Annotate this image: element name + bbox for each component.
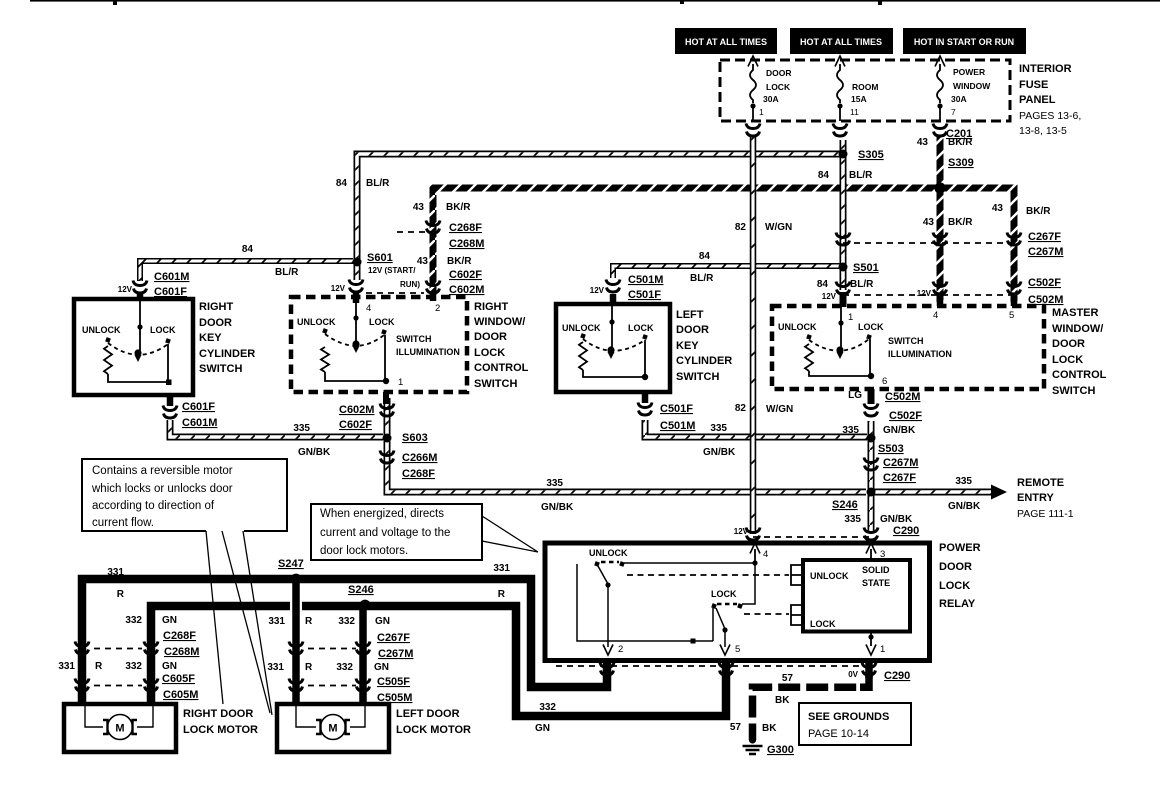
right key switch bottom bus	[108, 344, 169, 382]
svg-text:332: 332	[125, 615, 142, 626]
connector C201 fuse 3 output	[933, 124, 947, 137]
svg-text:BK/R: BK/R	[447, 256, 472, 267]
svg-text:C267M: C267M	[378, 648, 413, 660]
svg-text:C290: C290	[893, 525, 919, 537]
svg-text:RUN): RUN)	[400, 280, 420, 289]
svg-text:RIGHT DOOR: RIGHT DOOR	[183, 708, 253, 720]
power door lock relay box	[545, 543, 930, 661]
interior fuse panel box (dashed)	[720, 60, 1010, 121]
svg-text:C267F: C267F	[1028, 231, 1061, 243]
wire 335 GN/BK from left key cylinder to S503	[645, 420, 867, 437]
svg-text:STATE: STATE	[862, 578, 890, 588]
window switch contact unlock	[322, 328, 328, 334]
svg-text:GN/BK: GN/BK	[883, 425, 916, 436]
svg-text:DOOR: DOOR	[199, 317, 232, 329]
svg-text:according to direction of: according to direction of	[92, 500, 215, 512]
svg-text:WINDOW/: WINDOW/	[474, 316, 525, 328]
callout pointer to relay	[482, 516, 538, 552]
svg-text:43: 43	[413, 202, 425, 213]
svg-text:84: 84	[818, 170, 830, 181]
relay pin 3 internal lead	[870, 557, 872, 558]
right key switch wiper	[139, 301, 141, 352]
right motor M symbol	[108, 715, 133, 740]
wire 84 BL/R vertical S305 to S501 to master pin 1	[840, 140, 847, 290]
svg-text:84: 84	[242, 244, 254, 255]
svg-text:335: 335	[293, 423, 310, 434]
svg-text:current flow.: current flow.	[92, 517, 154, 529]
svg-text:332: 332	[338, 616, 355, 627]
svg-text:C601F: C601F	[182, 401, 215, 413]
power tag HOT IN START OR RUN	[903, 28, 1026, 54]
svg-text:LOCK: LOCK	[1052, 354, 1083, 366]
left door lock motor box	[277, 704, 389, 752]
svg-text:LOCK MOTOR: LOCK MOTOR	[396, 724, 471, 736]
svg-text:W/GN: W/GN	[766, 404, 793, 415]
master pins stubs 4 and 5 and numbers	[937, 297, 944, 306]
note box: when energized directs current	[311, 504, 482, 560]
fuse F1 DOOR LOCK 30A	[748, 56, 758, 67]
svg-text:C267M: C267M	[883, 457, 918, 469]
left key switch bottom bus	[583, 340, 645, 377]
connector C502 on x843 with 12V	[836, 282, 850, 295]
svg-text:CYLINDER: CYLINDER	[676, 355, 732, 367]
svg-text:C268F: C268F	[449, 222, 482, 234]
wire 43 BK/R from fuse F3 down through C201 S309 to master pin 4	[937, 135, 944, 302]
relay pin 1 lead	[870, 633, 872, 646]
window switch bottom bus and pin1 junction	[325, 335, 386, 381]
svg-text:C602F: C602F	[449, 269, 482, 281]
wire 43 BK/R bar from corner x433 to S309	[433, 188, 940, 295]
connector C201 fuse 1 output	[746, 124, 760, 137]
svg-text:SWITCH: SWITCH	[474, 378, 517, 390]
stub master pin 1 solid	[840, 292, 847, 307]
svg-text:331: 331	[107, 567, 124, 578]
svg-text:UNLOCK: UNLOCK	[589, 548, 628, 558]
master pin6 exit stub LG	[868, 389, 875, 404]
connector C505 left motor column	[289, 679, 303, 692]
svg-text:MASTER: MASTER	[1052, 307, 1099, 319]
master switch wiper	[840, 307, 842, 350]
see grounds box	[799, 703, 911, 745]
svg-text:RIGHT: RIGHT	[199, 301, 234, 313]
connector C268 right motor column	[75, 642, 89, 655]
svg-text:C501F: C501F	[628, 289, 661, 301]
connector C267 on 84 BL/R x843	[836, 233, 850, 246]
svg-text:LOCK: LOCK	[939, 580, 970, 592]
svg-text:0V: 0V	[848, 670, 858, 679]
svg-text:GN/BK: GN/BK	[703, 447, 736, 458]
relay pin 4 arrow and 12V	[750, 543, 760, 554]
svg-text:1: 1	[759, 107, 764, 117]
svg-text:POWER: POWER	[953, 67, 985, 77]
svg-text:CONTROL: CONTROL	[474, 362, 529, 374]
svg-text:84: 84	[699, 251, 711, 262]
wire 332 GN bar from pin5 through S246 to right motor	[151, 606, 726, 716]
svg-text:WINDOW: WINDOW	[953, 81, 991, 91]
svg-text:12V: 12V	[331, 284, 346, 293]
svg-text:5: 5	[1009, 310, 1014, 321]
svg-text:7: 7	[951, 107, 956, 117]
splice S501	[839, 263, 848, 272]
master switch bottom bus with pin 6 junction	[809, 339, 871, 376]
connector C290 pin 2	[600, 663, 614, 676]
connector C502 on x940 with 12V	[933, 282, 947, 295]
arrow to remote entry	[991, 485, 1007, 500]
svg-text:57: 57	[730, 722, 742, 733]
wire 43 BK/R right branch S309 to C267 C502 master pin 5	[940, 188, 1014, 302]
svg-text:BL/R: BL/R	[366, 178, 390, 189]
svg-text:C267M: C267M	[1028, 246, 1063, 258]
svg-text:S246: S246	[832, 499, 858, 511]
svg-text:LOCK: LOCK	[150, 325, 176, 335]
connector C502M/C502F below master switch	[864, 404, 878, 417]
svg-text:4: 4	[366, 303, 371, 314]
connector C267 on 43 BK/R x940	[933, 233, 947, 246]
wire 57 BK dashed to ground	[753, 672, 870, 740]
connector C290 pin 5	[719, 663, 733, 676]
svg-text:2: 2	[435, 303, 440, 314]
svg-text:S246: S246	[348, 584, 374, 596]
master switch resistor	[805, 344, 813, 371]
svg-text:4: 4	[763, 549, 768, 560]
solid state unlock coil	[791, 565, 801, 585]
wire 335 GN/BK window switch pin1 through S603 down to long run to S246	[387, 421, 866, 492]
svg-text:ILLUMINATION: ILLUMINATION	[888, 349, 952, 359]
wire 335 GN/BK branch S246 to remote entry	[871, 489, 992, 496]
svg-text:C601F: C601F	[154, 286, 187, 298]
svg-text:BL/R: BL/R	[849, 170, 873, 181]
splice S603	[383, 434, 392, 443]
connector C601F/C601M below right key switch	[163, 406, 177, 419]
left key switch contact lock	[642, 334, 648, 340]
right door lock motor box	[64, 704, 176, 752]
connector C605 right motor column	[75, 679, 89, 692]
svg-text:C505F: C505F	[377, 676, 410, 688]
svg-text:BK/R: BK/R	[446, 202, 471, 213]
svg-text:335: 335	[844, 514, 861, 525]
svg-text:DOOR: DOOR	[474, 331, 507, 343]
connector C267M/C267F below S503	[864, 458, 878, 471]
svg-text:11: 11	[850, 107, 859, 117]
svg-text:C601M: C601M	[182, 417, 217, 429]
left key switch dashed arc	[583, 339, 645, 351]
right key switch contact unlock	[105, 337, 111, 343]
svg-text:SWITCH: SWITCH	[396, 334, 432, 344]
left key switch contact unlock	[580, 333, 586, 339]
svg-text:13-8, 13-5: 13-8, 13-5	[1019, 125, 1067, 137]
connector C267 on 43 BK/R x1014	[1007, 233, 1021, 246]
svg-text:84: 84	[336, 178, 348, 189]
svg-text:R: R	[117, 589, 125, 600]
connector C602 on pin2 wire	[426, 281, 440, 294]
connector row C268 dashed stub	[397, 231, 426, 233]
callout line to right door lock motor	[206, 531, 223, 704]
svg-text:C267F: C267F	[377, 632, 410, 644]
svg-text:R: R	[305, 662, 313, 673]
wire 331 R S247 leg down to left motor (with halo)	[290, 582, 302, 704]
svg-text:C290: C290	[884, 670, 910, 682]
svg-text:GN: GN	[162, 661, 177, 672]
svg-text:332: 332	[539, 702, 556, 713]
svg-text:SWITCH: SWITCH	[888, 336, 924, 346]
svg-text:C267F: C267F	[883, 472, 916, 484]
connector C601M/C601F above right key switch with 12V	[133, 281, 147, 294]
svg-text:335: 335	[546, 478, 563, 489]
svg-text:C268F: C268F	[163, 630, 196, 642]
svg-text:PAGE 10-14: PAGE 10-14	[808, 728, 869, 740]
svg-text:LOCK: LOCK	[474, 347, 505, 359]
svg-text:LOCK: LOCK	[369, 317, 395, 327]
svg-text:G300: G300	[767, 744, 794, 756]
svg-text:RIGHT: RIGHT	[474, 301, 509, 313]
svg-text:335: 335	[710, 423, 727, 434]
svg-text:M: M	[328, 723, 337, 735]
connector C502 on x1014	[1007, 282, 1021, 295]
window switch resistor	[321, 347, 329, 372]
svg-text:GN: GN	[535, 723, 550, 734]
svg-text:POWER: POWER	[939, 542, 981, 554]
svg-text:82: 82	[735, 403, 747, 414]
svg-text:GN/BK: GN/BK	[298, 447, 331, 458]
svg-text:Contains a reversible motor: Contains a reversible motor	[92, 465, 233, 477]
right key switch dashed arc	[108, 343, 168, 355]
right motor internal leads	[85, 706, 153, 727]
svg-text:LOCK: LOCK	[711, 589, 737, 599]
window switch dashed arc	[325, 334, 384, 346]
svg-text:C268F: C268F	[402, 468, 435, 480]
connector C602 on pin4 wire with 12V label	[349, 280, 363, 293]
svg-text:C602M: C602M	[449, 284, 484, 296]
right key switch exit stub	[167, 393, 174, 406]
svg-text:BL/R: BL/R	[275, 267, 299, 278]
right key switch contact lock	[165, 338, 171, 344]
svg-text:RELAY: RELAY	[939, 598, 976, 610]
svg-text:15A: 15A	[851, 94, 867, 104]
master switch contact lock	[866, 334, 872, 340]
dashed link lock contact to coil	[744, 613, 789, 615]
power tag HOT AT ALL TIMES (room fuse)	[790, 28, 893, 54]
svg-text:C502F: C502F	[1028, 277, 1061, 289]
svg-text:KEY: KEY	[676, 340, 699, 352]
wire 332 GN S246 leg down to left motor	[359, 606, 367, 704]
svg-text:GN: GN	[375, 616, 390, 627]
svg-text:HOT AT ALL TIMES: HOT AT ALL TIMES	[800, 37, 882, 47]
callout lines to left door lock motor	[222, 531, 270, 713]
ground G300 symbol	[749, 736, 756, 743]
svg-text:CYLINDER: CYLINDER	[199, 348, 255, 360]
svg-text:1: 1	[848, 312, 853, 323]
svg-text:When energized, directs: When energized, directs	[320, 508, 444, 520]
solid state box	[803, 560, 910, 632]
connector row C267F/C267M dashed line	[843, 242, 1014, 244]
svg-text:BL/R: BL/R	[850, 279, 874, 290]
dashed link unlock contact to coil	[627, 574, 789, 576]
svg-text:HOT IN START OR RUN: HOT IN START OR RUN	[914, 37, 1014, 47]
relay pin 3 arrow	[866, 543, 876, 554]
connector C266M/C268F below S603	[380, 451, 394, 464]
svg-text:CONTROL: CONTROL	[1052, 369, 1107, 381]
connector C501F/C501M below left key switch	[638, 403, 652, 416]
svg-text:4: 4	[933, 310, 938, 321]
connector C602M/C602F below window switch	[380, 404, 394, 417]
svg-text:PANEL: PANEL	[1019, 94, 1056, 106]
power tag HOT AT ALL TIMES (door lock fuse)	[675, 28, 777, 54]
svg-text:12V: 12V	[590, 286, 605, 295]
svg-text:LEFT: LEFT	[676, 309, 704, 321]
svg-text:2: 2	[618, 644, 623, 655]
svg-text:DOOR: DOOR	[1052, 338, 1085, 350]
svg-text:UNLOCK: UNLOCK	[562, 323, 601, 333]
svg-text:57: 57	[782, 673, 794, 684]
splice S601	[353, 258, 362, 267]
splice S247	[291, 574, 302, 585]
svg-text:GN/BK: GN/BK	[948, 501, 981, 512]
svg-text:LOCK: LOCK	[628, 323, 654, 333]
svg-text:R: R	[498, 589, 506, 600]
svg-text:UNLOCK: UNLOCK	[82, 325, 121, 335]
master switch contact unlock	[806, 334, 812, 340]
svg-text:C501M: C501M	[628, 274, 663, 286]
wire 335 GN/BK short segment window switch pin1 to S603	[384, 398, 391, 440]
right window door lock control switch box (dashed)	[291, 297, 467, 392]
svg-text:C502F: C502F	[889, 410, 922, 422]
svg-text:BK: BK	[775, 695, 790, 706]
left key switch resistor	[579, 342, 587, 370]
svg-text:C605M: C605M	[163, 689, 198, 701]
svg-text:C605F: C605F	[162, 673, 195, 685]
svg-text:43: 43	[417, 256, 429, 267]
svg-text:S247: S247	[278, 558, 304, 570]
svg-text:LOCK: LOCK	[858, 322, 884, 332]
splice S309	[934, 182, 945, 193]
svg-text:331: 331	[267, 662, 284, 673]
svg-text:UNLOCK: UNLOCK	[778, 322, 817, 332]
master window door lock control switch box (dashed)	[772, 306, 1044, 389]
svg-text:GN/BK: GN/BK	[541, 502, 574, 513]
svg-text:ROOM: ROOM	[852, 82, 878, 92]
svg-text:FUSE: FUSE	[1019, 79, 1048, 91]
svg-text:30A: 30A	[951, 94, 967, 104]
svg-text:PAGES 13-6,: PAGES 13-6,	[1019, 110, 1081, 122]
svg-text:C501F: C501F	[660, 403, 693, 415]
svg-text:DOOR: DOOR	[766, 68, 792, 78]
stub pin 2	[430, 294, 437, 301]
svg-text:UNLOCK: UNLOCK	[810, 571, 849, 581]
svg-text:ILLUMINATION: ILLUMINATION	[396, 347, 460, 357]
connector C290 top pins dashed row	[753, 536, 871, 538]
svg-text:PAGE 111-1: PAGE 111-1	[1017, 508, 1074, 520]
splice S503	[867, 434, 876, 443]
connector C290 bottom dashed row	[556, 665, 860, 667]
svg-text:332: 332	[125, 661, 142, 672]
connector C268 on x433	[426, 221, 440, 234]
left door key cylinder switch box	[556, 304, 670, 392]
svg-text:SWITCH: SWITCH	[676, 371, 719, 383]
connector C201 fuse 2 output	[833, 124, 847, 137]
svg-text:BK/R: BK/R	[1026, 206, 1051, 217]
svg-text:82: 82	[735, 222, 747, 233]
svg-text:5: 5	[735, 644, 740, 655]
svg-text:GN: GN	[162, 615, 177, 626]
svg-text:43: 43	[992, 203, 1004, 214]
svg-text:current and voltage to the: current and voltage to the	[320, 527, 450, 539]
svg-text:SOLID: SOLID	[862, 565, 890, 575]
svg-text:S305: S305	[858, 149, 884, 161]
svg-text:LG: LG	[848, 390, 862, 401]
svg-text:W/GN: W/GN	[765, 222, 792, 233]
wire 82 W/GN from fuse F1 down to relay pin 4	[750, 135, 757, 534]
solid state lock coil	[791, 605, 801, 625]
fuse F3 POWER WINDOW 30A	[935, 56, 945, 67]
svg-text:BK/R: BK/R	[948, 217, 973, 228]
svg-text:R: R	[95, 661, 103, 672]
svg-text:1: 1	[398, 377, 403, 388]
svg-text:C268M: C268M	[164, 646, 199, 658]
svg-text:ENTRY: ENTRY	[1017, 492, 1055, 504]
svg-text:door lock motors.: door lock motors.	[320, 545, 408, 557]
splice S246 on 335 GN/BK	[867, 488, 876, 497]
svg-text:S601: S601	[367, 252, 393, 264]
stub window switch pin1 exit	[383, 392, 389, 404]
svg-text:12V (START/: 12V (START/	[368, 266, 416, 275]
svg-text:12V: 12V	[917, 289, 932, 298]
svg-text:which locks or unlocks door: which locks or unlocks door	[91, 483, 233, 495]
wire 84 BL/R feed to right door key cylinder switch C601	[140, 261, 353, 281]
svg-text:SEE GROUNDS: SEE GROUNDS	[808, 711, 889, 723]
splice S305	[839, 150, 848, 159]
svg-text:6: 6	[882, 376, 887, 387]
connector row C502F/C502M dashed line	[843, 294, 1014, 296]
svg-text:30A: 30A	[763, 94, 779, 104]
svg-text:LOCK: LOCK	[810, 619, 836, 629]
svg-text:GN/BK: GN/BK	[880, 514, 913, 525]
svg-text:C602F: C602F	[339, 419, 372, 431]
svg-text:C501M: C501M	[660, 420, 695, 432]
relay unlock pivot line	[577, 564, 713, 641]
svg-text:BL/R: BL/R	[690, 273, 714, 284]
wire 335 GN/BK from C601M to S603	[170, 420, 383, 437]
svg-text:S309: S309	[948, 157, 974, 169]
svg-text:S603: S603	[402, 432, 428, 444]
svg-text:R: R	[305, 616, 313, 627]
wire 84 BL/R feed to left door key cylinder switch C501	[613, 266, 841, 278]
stub pin 4	[353, 293, 360, 303]
connector C267 left motor column	[289, 642, 303, 655]
svg-text:SWITCH: SWITCH	[199, 363, 242, 375]
svg-text:C601M: C601M	[154, 271, 189, 283]
svg-text:BK: BK	[762, 723, 777, 734]
svg-text:C502M: C502M	[885, 391, 920, 403]
svg-text:SWITCH: SWITCH	[1052, 385, 1095, 397]
left key switch wiper	[611, 306, 613, 350]
svg-text:LEFT DOOR: LEFT DOOR	[396, 708, 460, 720]
connector C290 pin 1 with 0V	[862, 663, 876, 676]
clipped header text remnants at top edge	[30, 0, 1160, 2]
svg-text:12V: 12V	[118, 285, 133, 294]
window switch contact lock	[381, 329, 387, 335]
svg-text:WINDOW/: WINDOW/	[1052, 323, 1103, 335]
svg-text:43: 43	[923, 217, 935, 228]
svg-text:REMOTE: REMOTE	[1017, 477, 1064, 489]
note box: contains a reversible motor	[82, 459, 287, 531]
svg-text:C266M: C266M	[402, 452, 437, 464]
splice S246 on 332 GN bar	[360, 600, 371, 611]
right door key cylinder switch box	[74, 299, 193, 395]
window switch wiper	[355, 303, 357, 344]
svg-text:INTERIOR: INTERIOR	[1019, 63, 1072, 75]
svg-text:C602M: C602M	[339, 404, 374, 416]
svg-text:DOOR: DOOR	[676, 324, 709, 336]
